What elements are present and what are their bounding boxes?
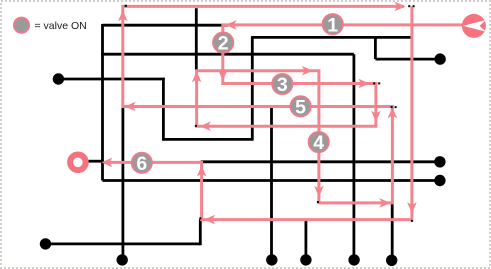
- arrow left at (225.5,24.9): [226, 20, 237, 30]
- wire: horizontal y=37.4: [252, 36, 410, 39]
- wire: long left vertical x=102.5: [101, 24, 104, 181]
- wire: horizontal y=79 from node dot: [58, 78, 164, 81]
- node G (271.8,259.9): [266, 254, 277, 265]
- arrow right at (312.9,70.7): [302, 66, 313, 76]
- arrow up at (122.8,10.2): [118, 10, 128, 21]
- valve 2: [213, 32, 233, 54]
- node E (45.5,243.9): [40, 238, 51, 249]
- wire: horizontal y=59.1 to right node: [375, 58, 440, 61]
- wire: vertical x=252.3: [251, 36, 254, 139]
- svg-text:4: 4: [313, 132, 324, 154]
- wire: vertical x=271.5 to bottom node: [270, 107, 273, 260]
- wire: vertical x=163.4: [162, 78, 165, 141]
- wire: horizontal y=180.5 full: [103, 179, 440, 182]
- node H (305.9,259.9): [300, 254, 311, 265]
- arrow left at (199.8,126.2): [200, 121, 211, 131]
- arrow up at (201.6,165.5): [197, 166, 207, 177]
- node F (122,259.9): [117, 254, 128, 265]
- svg-text:= valve ON: = valve ON: [35, 20, 87, 32]
- flow path part 2 (right vertical to outlet): [104, 6, 412, 219]
- node A (58.4,79): [53, 73, 64, 84]
- wire: horizontal y=161.8 to right node: [201, 160, 440, 163]
- arrow left at (124.6,106.5): [125, 102, 136, 112]
- wire: vertical x=392.2 to bottom node: [391, 203, 394, 260]
- inlet circle with white arrow: [462, 14, 486, 38]
- wire: vertical x=353.9 to bottom node: [352, 54, 355, 260]
- flow path part 1 (inlet to top-right arrow): [123, 6, 463, 203]
- arrow down at (222.8,80.8): [218, 70, 228, 81]
- valve 1: [323, 14, 343, 36]
- svg-text:6: 6: [136, 153, 147, 175]
- node C (439.9,161.8): [434, 156, 445, 167]
- arrow down at (318.9,196.9): [314, 186, 324, 197]
- arrow up at (392.4,107.3): [388, 107, 398, 118]
- arrow left at (204,219.6): [204, 215, 215, 225]
- svg-text:5: 5: [295, 96, 306, 118]
- arrow down at (411.9,213.3): [407, 202, 417, 213]
- wire: vertical x=196.3 upper: [195, 8, 198, 70]
- wire: horizontal y=54: [101, 53, 354, 56]
- node I (354.1,259.9): [348, 254, 359, 265]
- arrowheads: [101, 2, 416, 225]
- wire: bottom horizontal y=243.9: [46, 242, 201, 245]
- svg-text:3: 3: [277, 74, 288, 96]
- node D (439.9,180.5): [434, 175, 445, 186]
- arrow right at (390.3,202.9): [379, 198, 390, 208]
- node J (391.7,260.3): [386, 255, 397, 266]
- legend valve symbol: [14, 18, 87, 33]
- wire: vertical x=122.9 to bottom node: [122, 107, 125, 260]
- wire: top-left rect top side y=25: [103, 24, 229, 27]
- node B (440.1,59.1): [434, 53, 445, 64]
- arrow down at (375.9,124.2): [371, 111, 381, 122]
- corner tick marks: [125, 5, 415, 222]
- wire: small U vertical x=375.4: [374, 37, 377, 59]
- arrow right at (369.5,83.5): [359, 79, 370, 89]
- valve 6: [132, 153, 152, 175]
- wire: vertical x=200.3 y 219.4-243.9: [199, 219, 202, 245]
- wire: horizontal y=139.4: [163, 138, 253, 141]
- valve 4: [309, 132, 329, 154]
- wire: vertical x=305.9 to bottom node: [304, 220, 307, 260]
- valve 3: [272, 74, 292, 96]
- arrow up at (196.6,71.3): [192, 71, 202, 82]
- outlet ring: [70, 155, 86, 171]
- arrow right at (405.5,6.4): [395, 2, 406, 12]
- arrow left at (101.3,162.4): [101, 158, 112, 168]
- wire: stub from outlet ring y=161: [89, 160, 104, 163]
- valve 5: [290, 96, 310, 118]
- svg-text:2: 2: [218, 33, 229, 55]
- svg-text:1: 1: [327, 14, 338, 36]
